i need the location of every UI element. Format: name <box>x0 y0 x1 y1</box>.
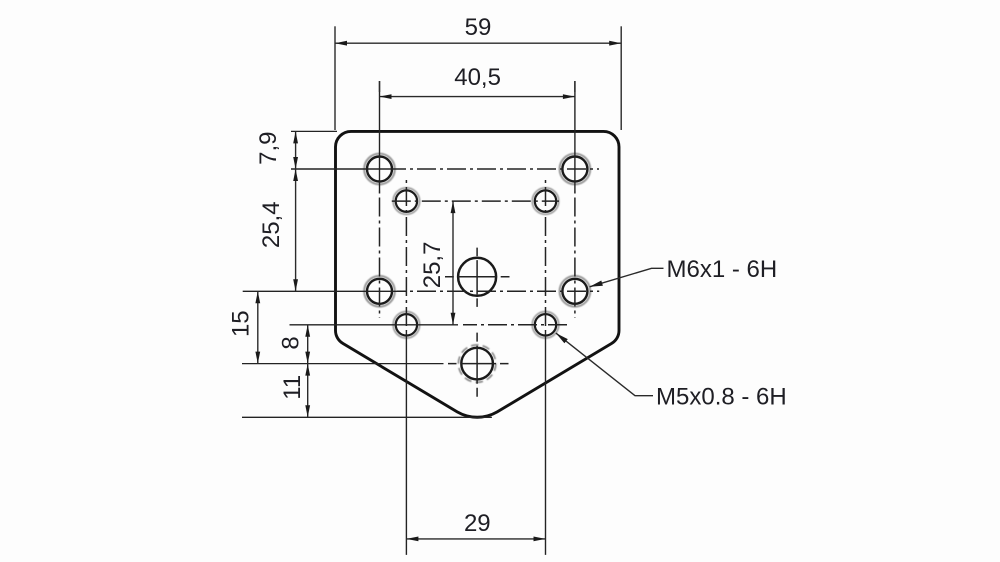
svg-text:11: 11 <box>279 375 306 400</box>
svg-text:40,5: 40,5 <box>454 64 501 91</box>
svg-text:M5x0.8 - 6H: M5x0.8 - 6H <box>656 384 787 411</box>
svg-text:59: 59 <box>465 14 492 41</box>
svg-text:15: 15 <box>227 310 254 337</box>
svg-text:M6x1 - 6H: M6x1 - 6H <box>667 256 778 283</box>
svg-text:29: 29 <box>464 510 491 537</box>
svg-text:25,7: 25,7 <box>419 242 446 289</box>
svg-text:8: 8 <box>278 336 305 349</box>
svg-text:25,4: 25,4 <box>258 201 285 248</box>
svg-text:7,9: 7,9 <box>255 132 282 165</box>
